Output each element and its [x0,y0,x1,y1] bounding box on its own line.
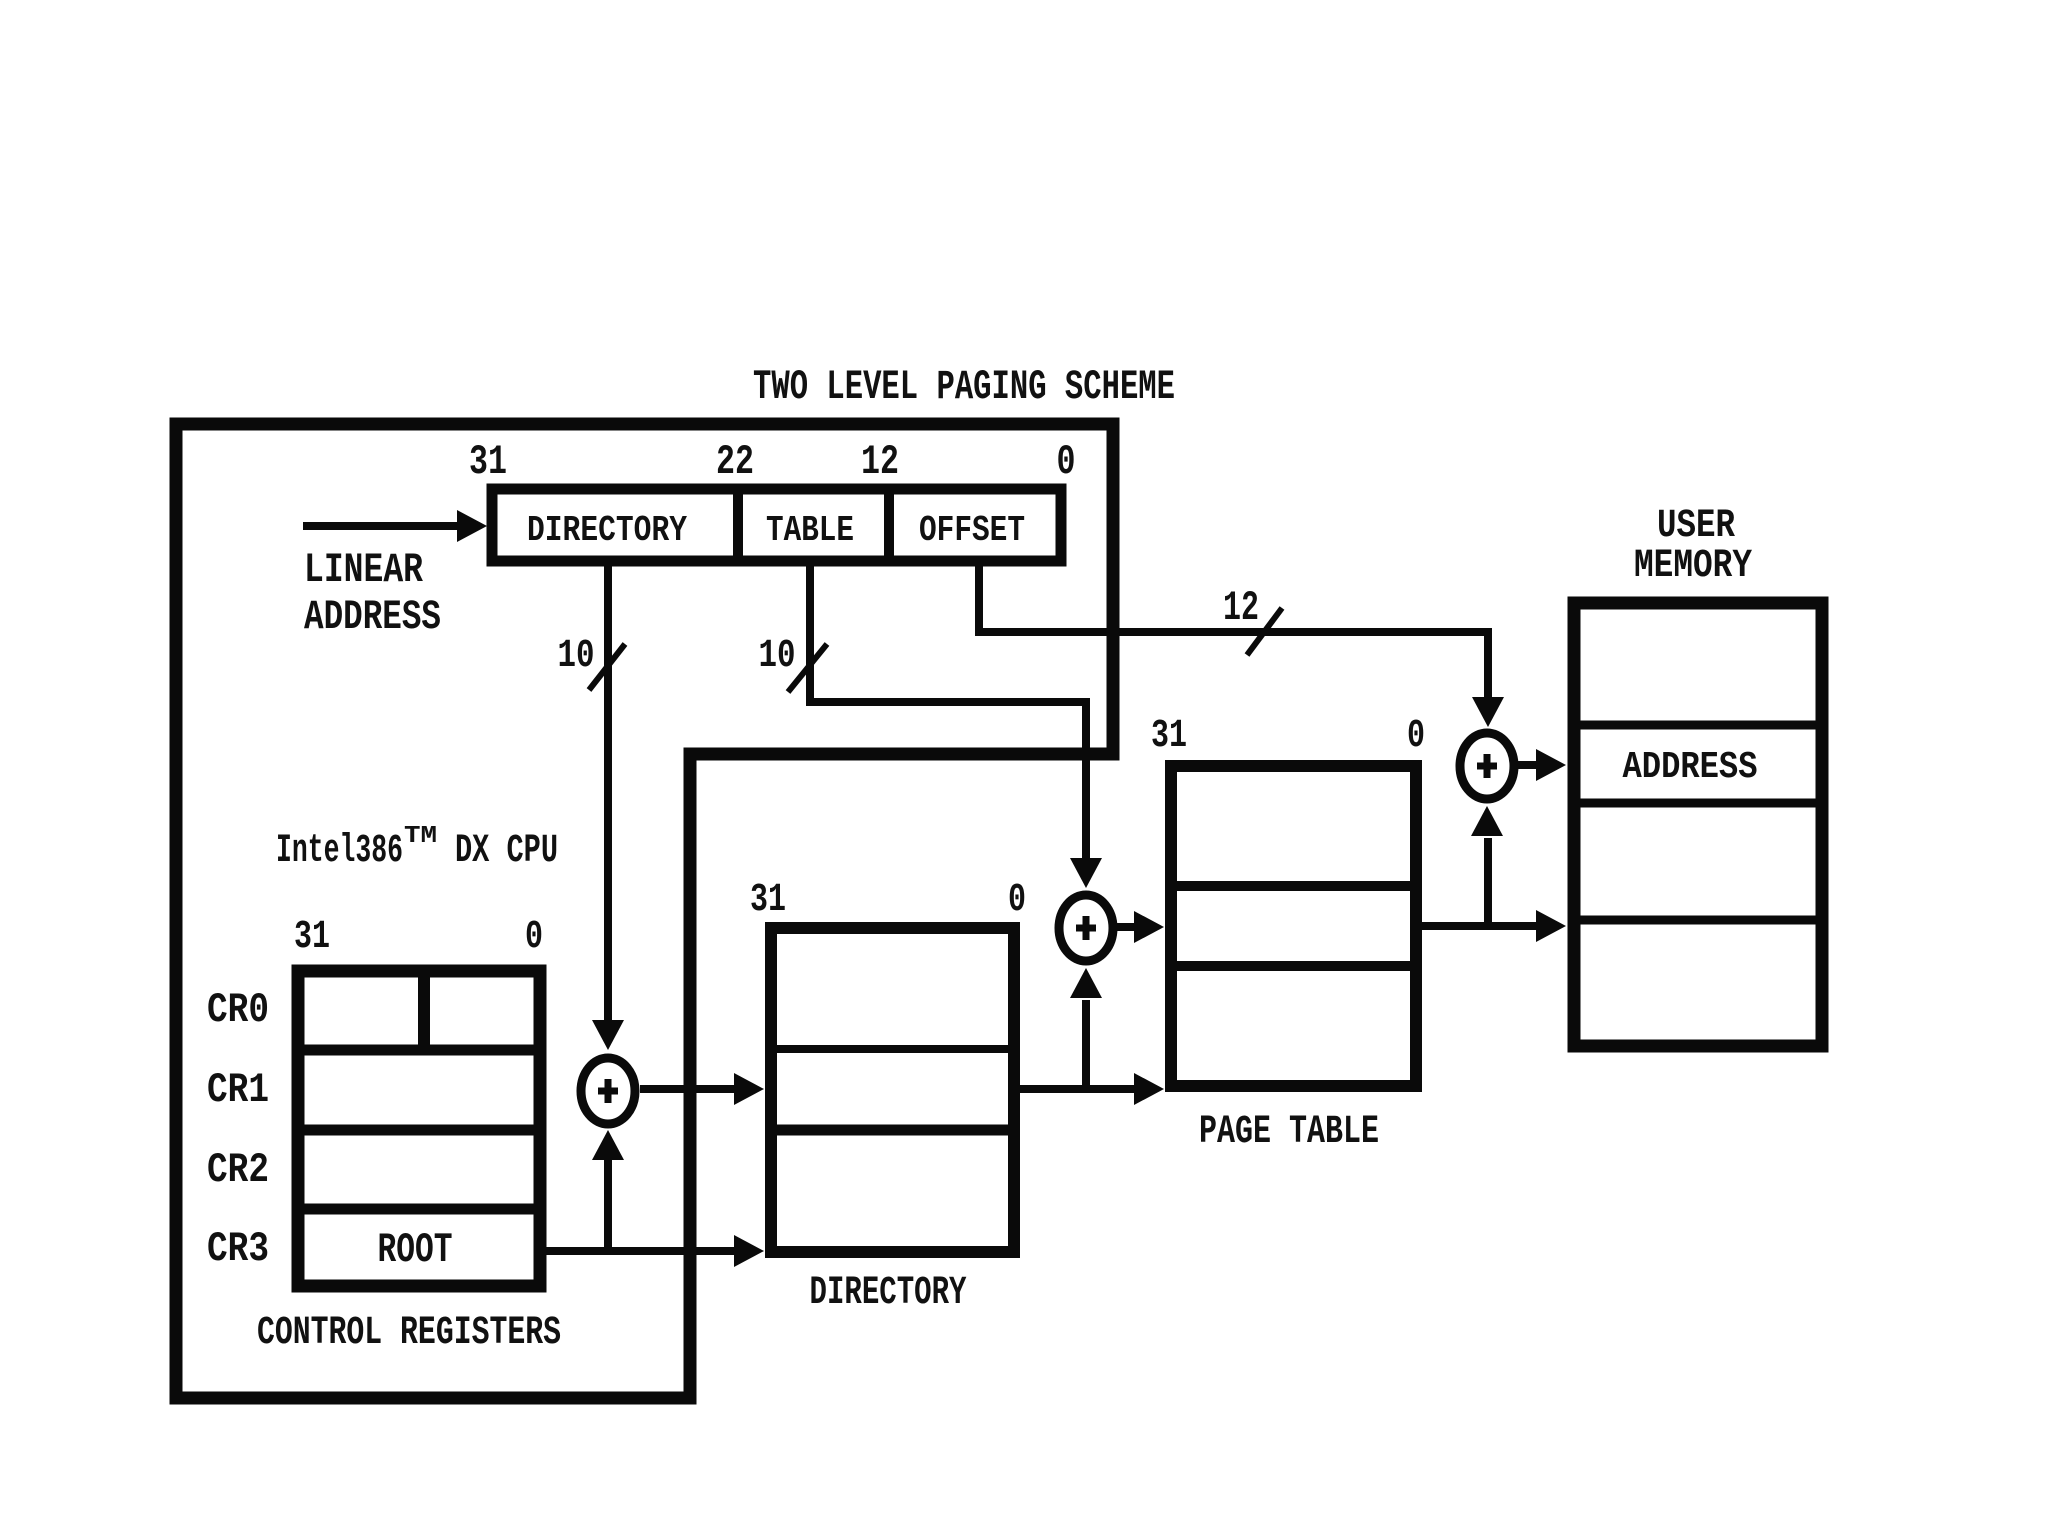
control registers box [298,971,540,1286]
svg-text:TM: TM [404,823,437,850]
wire junction up to adder U3 bottom [1484,838,1492,926]
wire directory entry out to page table / adder U2 [1014,1085,1136,1093]
svg-text:31: 31 [294,915,330,960]
wire junction up to adder U1 bottom [604,1158,612,1251]
wire page table entry out to user memory / adder U3 [1416,922,1538,930]
svg-text:0: 0 [1008,878,1026,923]
svg-text:CR1: CR1 [207,1066,269,1114]
svg-text:DIRECTORY: DIRECTORY [527,510,687,551]
svg-text:CR3: CR3 [207,1225,269,1273]
svg-text:ADDRESS: ADDRESS [304,593,441,641]
wire adder U3 output to user memory ADDRESS [1516,761,1538,769]
svg-text:0: 0 [525,915,543,960]
linear address register box [492,489,1061,561]
svg-text:ROOT: ROOT [378,1226,453,1274]
user memory divider 1 [1580,721,1816,730]
svg-text:CONTROL REGISTERS: CONTROL REGISTERS [257,1311,561,1356]
svg-text:LINEAR: LINEAR [304,546,424,594]
svg-text:DX CPU: DX CPU [455,829,558,874]
svg-text:31: 31 [750,878,786,923]
svg-text:10: 10 [759,634,796,679]
node label Intel386 TM DX CPU [276,823,558,874]
wire adder U1 output to directory table [640,1085,736,1093]
svg-text:31: 31 [469,438,507,486]
field divider DIRECTORY|TABLE [733,489,743,561]
directory table box [771,928,1014,1252]
field divider TABLE|OFFSET [884,489,894,561]
register divider below CR0 [298,1045,540,1056]
svg-text:10: 10 [558,634,595,679]
adder U3 circle [1460,733,1514,799]
wire adder U2 output to page table [1116,923,1136,931]
svg-text:31: 31 [1151,714,1187,759]
register divider below CR1 [298,1125,540,1136]
svg-text:PAGE TABLE: PAGE TABLE [1199,1110,1379,1155]
svg-text:12: 12 [861,438,899,486]
svg-text:USER: USER [1657,504,1735,549]
directory divider 2 [777,1125,1008,1136]
wire offset bits (12) down-right-down to adder U3 [979,561,1488,699]
svg-text:MEMORY: MEMORY [1634,544,1752,589]
CR0 cell divider [418,977,430,1050]
user memory box [1574,603,1822,1046]
svg-text:TABLE: TABLE [766,510,854,551]
svg-text:Intel386: Intel386 [276,829,403,874]
adder U2 circle [1059,895,1113,961]
svg-text:12: 12 [1223,584,1259,632]
page table box [1171,766,1416,1086]
bus slash (directory 10) [589,644,625,690]
wire ROOT (CR3) to directory table [540,1247,736,1255]
page table divider 1 [1177,881,1410,891]
CPU boundary box (Intel386 DX CPU outline) [176,424,1113,1398]
svg-text:ADDRESS: ADDRESS [1623,746,1758,789]
bus slash (offset 12) [1247,608,1282,655]
svg-text:TWO LEVEL PAGING SCHEME: TWO LEVEL PAGING SCHEME [753,363,1175,411]
svg-text:0: 0 [1407,714,1425,759]
bus slash (table 10) [788,644,827,692]
svg-text:CR2: CR2 [207,1146,269,1194]
svg-text:0: 0 [1057,438,1076,486]
wire junction up to adder U2 bottom [1082,1000,1090,1089]
register divider below CR2 [298,1204,540,1215]
wire linear address input arrow [303,522,460,530]
svg-text:DIRECTORY: DIRECTORY [810,1271,967,1316]
wire directory bits (10) down to adder U1 [604,561,612,1022]
directory divider 1 [777,1045,1008,1053]
wire table bits (10) down-right-down to adder U2 [810,561,1086,860]
svg-text:CR0: CR0 [207,986,269,1034]
user memory divider 3 [1580,916,1816,925]
user memory divider 2 [1580,799,1816,808]
svg-text:22: 22 [716,438,754,486]
adder U1 circle [581,1058,635,1124]
page table divider 2 [1177,961,1410,971]
svg-text:OFFSET: OFFSET [919,510,1025,551]
